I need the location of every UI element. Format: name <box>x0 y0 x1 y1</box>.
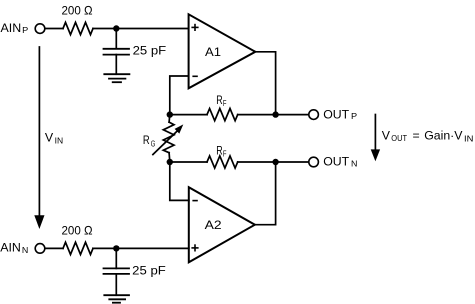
pin A1 minus <box>193 75 197 77</box>
node junction A2 plus <box>113 245 119 251</box>
wire RF2 to OUTN node <box>238 161 276 163</box>
wire RF1 to OUTP node <box>238 114 276 116</box>
resistor RinN 200ohm <box>63 242 93 254</box>
svg-text:V: V <box>382 129 391 143</box>
resistor RinP 200ohm <box>63 22 93 34</box>
ground G1 <box>104 74 129 82</box>
capacitor C1 lead top <box>115 29 117 49</box>
svg-text:V: V <box>45 131 54 145</box>
op-amp A1 <box>189 14 256 88</box>
arrow VOUT head <box>371 149 380 161</box>
node junction A1 plus <box>113 25 119 31</box>
wire node RG bottom to RF2 <box>170 161 207 163</box>
arrow VIN line <box>38 47 40 216</box>
svg-text:25 pF: 25 pF <box>133 44 167 58</box>
wire A1 minus feedback <box>170 76 189 115</box>
wire A2 output <box>255 162 276 225</box>
svg-text:G: G <box>151 138 156 148</box>
capacitor C1 <box>104 49 130 55</box>
svg-text:=: = <box>413 129 420 143</box>
terminal OUTP <box>309 110 319 120</box>
terminal AINN <box>35 244 45 254</box>
svg-text:F: F <box>223 149 227 159</box>
capacitor C2 <box>104 268 130 274</box>
pin A2 plus <box>192 245 198 251</box>
resistor RF1 <box>207 109 238 121</box>
resistor RG <box>163 122 174 153</box>
svg-text:R: R <box>143 133 150 147</box>
ground G2 <box>104 295 129 303</box>
terminal AINP <box>35 24 45 34</box>
node junction RG top <box>167 111 173 117</box>
svg-text:P: P <box>351 111 357 121</box>
svg-text:P: P <box>22 25 28 35</box>
node junction RG bottom <box>167 159 173 165</box>
svg-text:OUT: OUT <box>323 107 349 121</box>
node junction OUTN <box>272 159 278 165</box>
resistor RG arrow line <box>153 131 177 154</box>
svg-text:AIN: AIN <box>1 21 22 35</box>
capacitor C2 lead top <box>115 248 117 268</box>
svg-text:200 Ω: 200 Ω <box>62 3 93 17</box>
terminal OUTN <box>309 157 319 167</box>
wire A1 output <box>255 52 275 115</box>
capacitor C1 lead bottom <box>115 55 117 75</box>
svg-text:A2: A2 <box>205 218 222 232</box>
resistor RG arrow head <box>175 124 184 133</box>
svg-text:IN: IN <box>55 136 64 146</box>
op-amp A2 <box>189 187 255 262</box>
svg-text:N: N <box>22 245 28 255</box>
pin A2 minus <box>193 200 197 202</box>
wire AINP lead <box>45 28 63 30</box>
wire OUTP node to terminal <box>276 114 309 116</box>
wire AINP to A1 plus <box>93 28 189 30</box>
svg-text:R: R <box>216 93 222 107</box>
arrow VOUT line <box>374 115 376 151</box>
svg-text:Gain·V: Gain·V <box>424 129 463 143</box>
wire AINN to A2 plus <box>93 247 189 249</box>
svg-text:OUT: OUT <box>323 155 349 169</box>
resistor RG leads <box>168 115 171 123</box>
svg-text:AIN: AIN <box>0 241 21 255</box>
wire A2 minus feedback <box>170 162 189 200</box>
svg-text:F: F <box>223 98 227 108</box>
wire AINN lead <box>45 247 63 249</box>
pin A1 plus <box>192 25 198 31</box>
svg-text:IN: IN <box>464 133 473 143</box>
node junction OUTP <box>272 111 278 117</box>
svg-text:25 pF: 25 pF <box>132 264 166 278</box>
resistor RG lead bottom <box>168 153 171 162</box>
capacitor C2 lead bottom <box>115 274 117 295</box>
svg-text:A1: A1 <box>205 45 221 59</box>
wire OUTN node to terminal <box>276 161 309 163</box>
arrow VIN head <box>34 215 44 229</box>
svg-text:OUT: OUT <box>391 133 407 143</box>
svg-text:N: N <box>351 159 357 169</box>
resistor RF2 <box>207 156 238 168</box>
svg-text:R: R <box>216 143 222 157</box>
wire node RG top to RF1 <box>170 114 207 116</box>
svg-text:200 Ω: 200 Ω <box>62 223 93 237</box>
